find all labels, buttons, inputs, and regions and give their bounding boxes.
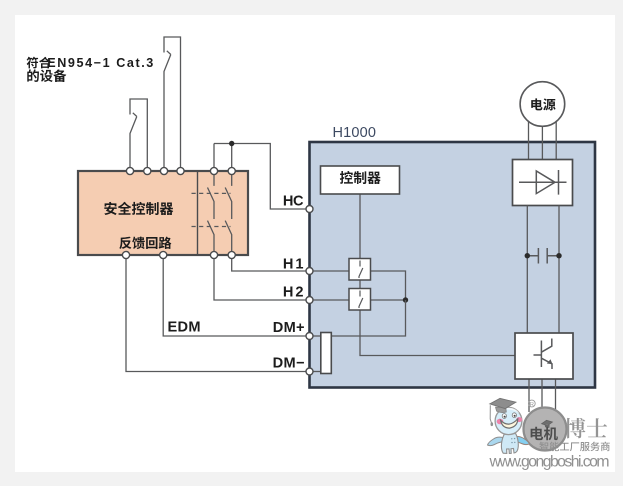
label 安全控制器 xyxy=(104,202,173,215)
node DM- xyxy=(306,368,313,375)
wire H2 node to contactor2 xyxy=(313,299,349,301)
node H2 xyxy=(306,297,313,304)
rectifier box xyxy=(513,160,573,206)
watermark text 电机 xyxy=(531,427,558,441)
note text line2 的设备 xyxy=(27,69,66,82)
wires power supply to rectifier xyxy=(529,118,557,160)
terminal B4 bottom xyxy=(228,251,235,258)
junction dot H2/right bus xyxy=(403,297,408,302)
wire DM+ node to connector bar xyxy=(313,335,321,337)
wire contactor2 to gate line xyxy=(360,310,515,356)
inverter IGBT symbol xyxy=(534,339,553,370)
terminal T5 top xyxy=(210,167,217,174)
controller box xyxy=(321,166,400,194)
wire HC from safety relay top terminals to H1000 HC xyxy=(214,144,306,210)
terminal T2 top xyxy=(144,167,151,174)
registered trademark symbol xyxy=(528,400,535,407)
wire H2 from bottom terminal xyxy=(214,259,306,300)
svg-text:R: R xyxy=(530,402,534,408)
svg-text:DM+: DM+ xyxy=(273,320,305,336)
inverter box xyxy=(515,333,573,379)
node DM+ xyxy=(306,333,313,340)
switch S2 wire loop xyxy=(164,37,181,168)
terminal T3 top xyxy=(160,167,167,174)
node H1 xyxy=(306,268,313,275)
rectifier diode symbol xyxy=(519,170,567,195)
svg-text:HC: HC xyxy=(283,194,304,210)
wire junction down to DM+ connector xyxy=(332,300,406,336)
mechanical link dashes row 1 xyxy=(192,192,231,194)
watermark text 博士 xyxy=(565,418,608,438)
DM terminal connector bar xyxy=(321,333,332,374)
wire H1 from bottom terminal xyxy=(232,259,307,271)
capacitor junction dot left xyxy=(525,253,530,258)
mechanical link dashes row 2 xyxy=(192,226,231,228)
terminal T1 top xyxy=(126,167,133,174)
switch S2 blade xyxy=(164,51,171,168)
svg-text:H1000: H1000 xyxy=(333,125,377,141)
terminal T4 top xyxy=(177,167,184,174)
label 电源 xyxy=(531,98,555,110)
contactor K1 contact symbol xyxy=(359,261,363,279)
switch S1 wire loop xyxy=(130,99,147,168)
power supply circle 电源 xyxy=(520,82,565,127)
node HC xyxy=(306,206,313,213)
wires inverter to motor xyxy=(529,379,556,412)
mini graduation cap on 机 xyxy=(542,420,553,427)
label 反馈回路 xyxy=(119,237,171,250)
wire contactor1 to contactor2 xyxy=(359,280,361,289)
switch S1 blade xyxy=(130,113,137,168)
junction dot on HC wire xyxy=(229,141,234,146)
wire EDM / DM+ from bottom terminal xyxy=(163,259,306,336)
label 控制器 xyxy=(340,171,381,184)
svg-text:www.gongboshi.com: www.gongboshi.com xyxy=(489,453,610,470)
safety controller box xyxy=(78,171,248,255)
safety relay contact column 2 xyxy=(225,171,232,255)
svg-text:DM−: DM− xyxy=(273,356,305,372)
watermark mascot xyxy=(488,398,530,453)
note text line1 CJK 符合 xyxy=(27,57,51,69)
svg-text:H2: H2 xyxy=(283,285,304,301)
terminal B3 bottom xyxy=(210,251,217,258)
wire H1 node to contactor1 xyxy=(313,270,349,272)
DC bus capacitor xyxy=(527,248,559,264)
terminal T6 top xyxy=(228,167,235,174)
terminal B1 bottom xyxy=(122,251,129,258)
IGBT emitter arrowhead xyxy=(547,359,553,364)
svg-text:H1: H1 xyxy=(283,257,304,273)
watermark text 智能工厂服务商 xyxy=(539,442,609,452)
capacitor junction dot right xyxy=(556,253,561,258)
safety controller divider line xyxy=(197,171,199,255)
wire DM- from bottom terminal xyxy=(126,259,306,372)
wire contactor2 to junction xyxy=(371,299,406,301)
contactor K2 box xyxy=(349,289,371,311)
motor circle xyxy=(524,408,567,451)
wire DM- node to connector bar xyxy=(313,371,321,373)
terminal B2 bottom xyxy=(160,251,167,258)
safety relay contact column 1 xyxy=(208,171,215,255)
contactor K2 contact symbol xyxy=(359,291,363,309)
H1000 drive enclosure xyxy=(310,142,596,388)
svg-text:EDM: EDM xyxy=(168,320,201,336)
wire controller to contactor 1 xyxy=(359,194,361,259)
DC bus rails xyxy=(527,206,559,334)
wire contactor1 to right bus xyxy=(371,271,406,300)
contactor K1 box xyxy=(349,259,371,281)
svg-text:EN954−1 Cat.3: EN954−1 Cat.3 xyxy=(47,56,153,70)
